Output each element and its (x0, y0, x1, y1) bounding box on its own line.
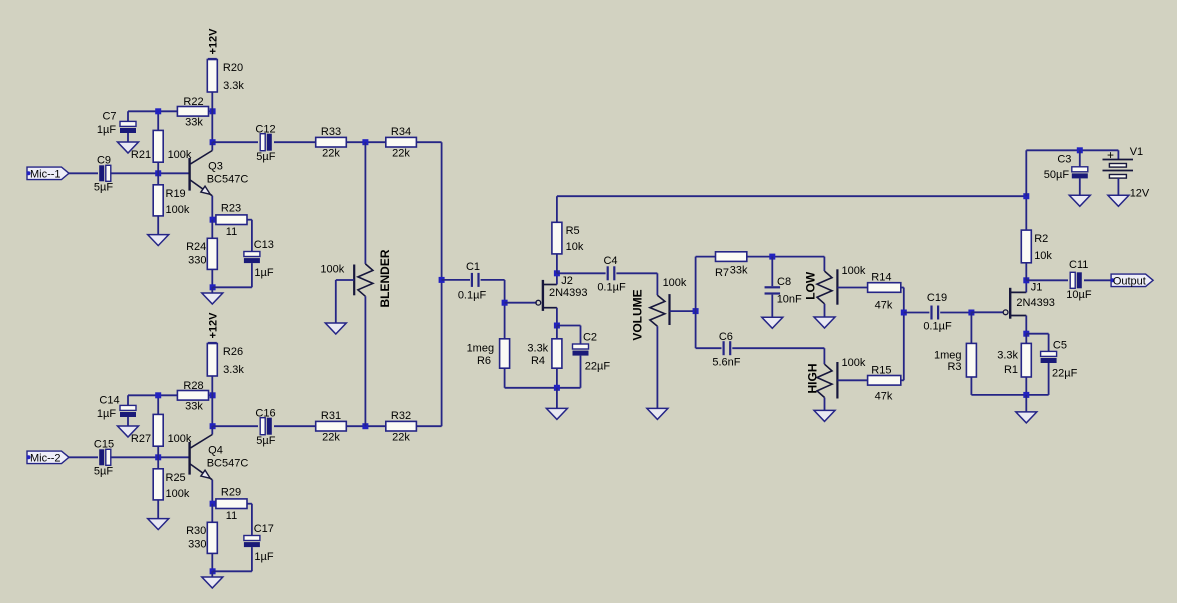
svg-text:10nF: 10nF (777, 293, 802, 305)
svg-text:5.6nF: 5.6nF (712, 356, 740, 368)
svg-text:C19: C19 (927, 292, 947, 304)
svg-text:R1: R1 (1004, 364, 1018, 376)
svg-text:100k: 100k (166, 204, 190, 216)
svg-text:R20: R20 (223, 62, 243, 74)
svg-text:22k: 22k (392, 148, 410, 160)
svg-text:0.1µF: 0.1µF (458, 289, 487, 301)
svg-text:C9: C9 (97, 154, 111, 166)
svg-text:33k: 33k (185, 401, 203, 413)
svg-text:1µF: 1µF (254, 551, 273, 563)
svg-text:0.1µF: 0.1µF (597, 281, 626, 293)
svg-text:+: + (1107, 148, 1114, 162)
svg-text:R22: R22 (183, 96, 203, 108)
svg-text:47k: 47k (875, 300, 893, 312)
svg-text:22k: 22k (322, 432, 340, 444)
svg-text:+12V: +12V (207, 312, 219, 339)
svg-text:3.3k: 3.3k (997, 350, 1018, 362)
svg-text:10µF: 10µF (1066, 289, 1092, 301)
svg-text:R4: R4 (531, 355, 545, 367)
svg-text:R32: R32 (391, 410, 411, 422)
svg-text:1µF: 1µF (97, 124, 116, 136)
svg-text:100k: 100k (168, 433, 192, 445)
svg-text:Q3: Q3 (208, 160, 223, 172)
svg-text:1meg: 1meg (934, 349, 962, 361)
svg-text:C3: C3 (1057, 153, 1071, 165)
svg-text:33k: 33k (730, 264, 748, 276)
svg-text:C12: C12 (255, 123, 275, 135)
svg-text:R25: R25 (166, 472, 186, 484)
svg-text:R24: R24 (186, 241, 206, 253)
svg-text:C2: C2 (583, 331, 597, 343)
svg-text:R33: R33 (321, 126, 341, 138)
svg-text:R7: R7 (715, 267, 729, 279)
svg-text:5µF: 5µF (256, 151, 275, 163)
svg-text:C5: C5 (1053, 340, 1067, 352)
svg-text:R19: R19 (166, 188, 186, 200)
svg-text:22µF: 22µF (1052, 367, 1078, 379)
svg-text:2N4393: 2N4393 (549, 287, 588, 299)
svg-text:R23: R23 (221, 203, 241, 215)
svg-text:HIGH: HIGH (805, 364, 819, 394)
svg-text:47k: 47k (875, 390, 893, 402)
svg-text:R30: R30 (186, 525, 206, 537)
svg-text:C13: C13 (254, 239, 274, 251)
svg-text:V1: V1 (1130, 146, 1143, 158)
svg-text:100k: 100k (168, 149, 192, 161)
svg-text:J2: J2 (561, 275, 573, 287)
svg-text:3.3k: 3.3k (223, 364, 244, 376)
svg-text:3.3k: 3.3k (527, 343, 548, 355)
svg-text:100k: 100k (320, 263, 344, 275)
svg-text:Mic--2: Mic--2 (30, 452, 61, 464)
svg-text:3.3k: 3.3k (223, 80, 244, 92)
svg-text:11: 11 (226, 226, 237, 238)
svg-text:1meg: 1meg (467, 343, 495, 355)
svg-text:C1: C1 (466, 261, 480, 273)
svg-text:VOLUME: VOLUME (630, 289, 644, 340)
svg-text:5µF: 5µF (256, 435, 275, 447)
svg-text:R34: R34 (391, 126, 411, 138)
svg-text:R26: R26 (223, 346, 243, 358)
svg-text:BLENDER: BLENDER (378, 249, 392, 307)
svg-text:R28: R28 (183, 380, 203, 392)
svg-text:R14: R14 (871, 272, 891, 284)
svg-text:R31: R31 (321, 410, 341, 422)
svg-text:12V: 12V (1130, 188, 1150, 200)
svg-text:C14: C14 (99, 394, 119, 406)
svg-text:C16: C16 (255, 407, 275, 419)
svg-text:J1: J1 (1031, 281, 1043, 293)
svg-text:R5: R5 (566, 225, 580, 237)
svg-text:330: 330 (188, 538, 206, 550)
svg-text:100k: 100k (663, 277, 687, 289)
svg-text:Output: Output (1113, 275, 1146, 287)
svg-text:R27: R27 (131, 433, 151, 445)
svg-text:C4: C4 (603, 255, 617, 267)
svg-text:22k: 22k (392, 432, 410, 444)
svg-text:22µF: 22µF (585, 361, 611, 373)
svg-text:2N4393: 2N4393 (1016, 297, 1055, 309)
svg-text:Q4: Q4 (208, 444, 223, 456)
svg-text:C8: C8 (777, 276, 791, 288)
svg-text:R29: R29 (221, 487, 241, 499)
svg-text:R2: R2 (1034, 233, 1048, 245)
svg-text:C11: C11 (1069, 259, 1088, 271)
svg-text:5µF: 5µF (94, 465, 113, 477)
svg-text:C6: C6 (719, 331, 733, 343)
svg-text:R3: R3 (947, 361, 961, 373)
svg-text:C7: C7 (102, 110, 116, 122)
svg-text:33k: 33k (185, 117, 203, 129)
svg-text:22k: 22k (322, 148, 340, 160)
svg-text:Mic--1: Mic--1 (30, 168, 61, 180)
svg-text:330: 330 (188, 254, 206, 266)
svg-text:100k: 100k (841, 265, 865, 277)
svg-text:LOW: LOW (804, 271, 818, 300)
svg-text:BC547C: BC547C (207, 457, 249, 469)
svg-text:5µF: 5µF (94, 181, 113, 193)
svg-text:R15: R15 (871, 364, 891, 376)
svg-text:0.1µF: 0.1µF (923, 320, 952, 332)
svg-text:1µF: 1µF (254, 267, 273, 279)
svg-text:R6: R6 (477, 355, 491, 367)
svg-text:C17: C17 (254, 523, 274, 535)
svg-text:1µF: 1µF (97, 408, 116, 420)
svg-text:C15: C15 (94, 438, 114, 450)
svg-text:10k: 10k (1034, 250, 1052, 262)
svg-text:100k: 100k (166, 488, 190, 500)
svg-text:10k: 10k (566, 241, 584, 253)
svg-text:R21: R21 (131, 149, 151, 161)
svg-text:+12V: +12V (207, 28, 219, 55)
svg-text:100k: 100k (841, 357, 865, 369)
svg-text:11: 11 (226, 510, 237, 522)
svg-text:BC547C: BC547C (207, 173, 249, 185)
svg-text:50µF: 50µF (1044, 169, 1070, 181)
